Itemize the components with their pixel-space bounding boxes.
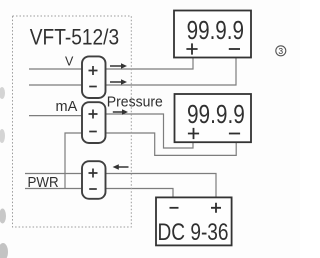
scan smudge left edge 3: [0, 209, 6, 224]
terminal block mA: [82, 102, 106, 143]
wire PWR+ to DC supply plus: [106, 174, 217, 198]
dashed enclosure VFT-512/3: [13, 16, 132, 227]
terminal PWR plus: [89, 169, 98, 178]
scan smudge left edge 2: [0, 129, 5, 143]
arrow right at V-: [110, 79, 127, 85]
note circled 3: [276, 46, 286, 56]
display U2 plus: [188, 128, 199, 139]
display U1 minus: [229, 48, 240, 50]
terminal mA plus: [89, 110, 98, 119]
terminal V plus: [89, 66, 98, 75]
terminal block V: [82, 56, 106, 98]
display U2 minus: [229, 133, 240, 135]
terminal block PWR: [82, 161, 106, 199]
svg-text:mA: mA: [56, 99, 78, 115]
wire V- to display U1 minus: [106, 58, 237, 86]
DC supply minus: [170, 207, 179, 209]
wire V+ to display U1 plus: [106, 58, 194, 70]
svg-text:Pressure: Pressure: [107, 94, 163, 110]
scan smudge left edge 1: [0, 87, 5, 99]
scan smudge left edge 4: [0, 243, 8, 258]
arrow right at V+: [110, 63, 127, 69]
svg-text:V: V: [65, 55, 74, 69]
terminal V minus: [89, 86, 97, 88]
terminal PWR minus: [89, 188, 97, 190]
svg-text:DC 9-36: DC 9-36: [158, 218, 229, 246]
svg-text:PWR: PWR: [28, 174, 59, 191]
terminal mA minus: [89, 131, 97, 133]
svg-text:VFT-512/3: VFT-512/3: [30, 25, 119, 50]
DC supply plus: [211, 203, 221, 213]
svg-text:99.9.9: 99.9.9: [187, 16, 244, 45]
arrow right at mA+ (Pressure): [113, 109, 128, 115]
wire PWR+ left stub: [25, 173, 82, 175]
arrow left at PWR+: [113, 164, 129, 170]
wire mA+ left stub: [29, 115, 82, 117]
wire V+ left stub: [29, 68, 82, 70]
display U2 box: [175, 94, 252, 142]
wire V- left stub: [29, 84, 82, 86]
svg-text:3: 3: [278, 46, 283, 56]
display U1 box: [174, 11, 251, 58]
wire PWR- left stub: [25, 188, 82, 190]
display U1 plus: [186, 43, 197, 54]
wire PWR- to DC supply minus: [106, 189, 174, 198]
wire mA- left to PWR- junction: [65, 133, 82, 189]
DC supply box: [156, 197, 232, 245]
wire mA+ to display U2 plus: [106, 114, 194, 148]
wire mA- to display U2 minus: [106, 133, 237, 155]
svg-text:99.9.9: 99.9.9: [187, 100, 245, 129]
